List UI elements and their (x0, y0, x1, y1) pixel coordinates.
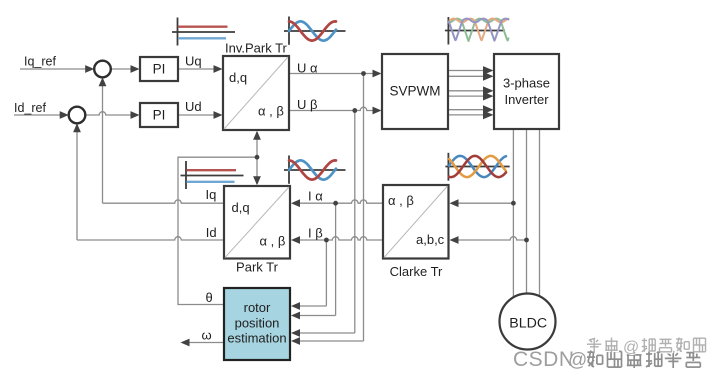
motor BLDC M1 (500, 294, 556, 350)
wire Ud PI2 to Inv.Park (178, 114, 217, 116)
wire summer S2 to PI2 (85, 112, 134, 115)
block Inv.Park transform U1 (223, 56, 289, 130)
svg-text:a,b,c: a,b,c (416, 232, 445, 247)
wire I-alpha Clarke to Park (296, 200, 383, 203)
svg-text:d,q: d,q (229, 70, 247, 85)
svg-text:BLDC: BLDC (509, 316, 547, 332)
wire inverter phase A (512, 130, 514, 299)
svg-text:Id_ref: Id_ref (14, 101, 46, 115)
block SVPWM U2 (382, 54, 448, 129)
junction dot phase A (511, 201, 516, 206)
block Clarke transform U5 (383, 185, 449, 259)
svg-text:PI: PI (153, 62, 166, 77)
svg-text:Inverter: Inverter (504, 92, 549, 107)
svg-text:Uq: Uq (185, 54, 202, 69)
svg-text:d,q: d,q (232, 200, 250, 215)
svg-text:U β: U β (297, 97, 317, 112)
block Park transform U4 (224, 186, 290, 259)
svg-text:SVPWM: SVPWM (389, 84, 440, 99)
wire PWM gate signal 5 (448, 109, 484, 111)
scope icon phase currents (445, 153, 509, 181)
junction dot U-alpha (361, 71, 366, 76)
wire PWM gate signal 3 (448, 90, 484, 92)
svg-text:estimation: estimation (227, 331, 286, 346)
wire PWM gate signal 4 (448, 95, 484, 97)
scope icon dq voltages (top-left) (172, 18, 235, 46)
watermark CSDN (513, 348, 702, 372)
svg-text:α , β: α , β (260, 234, 286, 249)
svg-text:ω: ω (202, 328, 212, 343)
watermark zhihu (587, 338, 707, 358)
junction dot I-alpha (333, 201, 338, 206)
wire Id_ref input (14, 114, 63, 116)
svg-text:Id: Id (206, 225, 217, 240)
PI controller PI1 (140, 57, 178, 81)
svg-text:CSDN: CSDN (513, 348, 575, 371)
wire U-alpha feedback to estimator (363, 74, 365, 342)
wire omega output (188, 342, 224, 344)
PI controller PI2 (140, 103, 178, 127)
svg-text:Inv.Park Tr: Inv.Park Tr (225, 41, 288, 56)
svg-text:Iq: Iq (206, 187, 217, 202)
wire phase A tap to Clarke (454, 202, 513, 204)
scope icon alpha-beta voltages (top) (284, 17, 346, 45)
summing junction S1 (94, 61, 111, 78)
block rotor position estimation U6 (224, 288, 290, 360)
wire I-beta Clarke to Park (296, 237, 383, 240)
wire theta estimator to transforms (178, 157, 257, 304)
svg-text:I β: I β (308, 225, 323, 240)
svg-text:θ: θ (206, 290, 213, 305)
wire U-beta feedback to estimator (354, 111, 356, 334)
wire phase B tap to Clarke (454, 237, 527, 240)
svg-text:Clarke Tr: Clarke Tr (390, 264, 443, 279)
svg-text:Ud: Ud (185, 99, 202, 114)
block 3-phase inverter U3 (494, 54, 559, 129)
wire Iq feedback Park to S1 (103, 200, 225, 203)
wire I-beta feedback to estimator (325, 240, 327, 306)
svg-text:PI: PI (153, 108, 166, 123)
wire summer S1 to PI1 (111, 68, 134, 70)
wire PWM gate signal 6 (448, 114, 484, 116)
wire inverter phase C (539, 130, 541, 299)
svg-text:3-phase: 3-phase (503, 76, 550, 91)
svg-text:U α: U α (297, 60, 318, 75)
wire Iq_ref input (20, 68, 88, 70)
wire inverter phase B (526, 130, 528, 295)
junction dot U-beta (352, 108, 357, 113)
wire U-alpha Inv.Park to SVPWM (289, 73, 376, 75)
wire PWM gate signal 2 (448, 75, 484, 77)
svg-text:α , β: α , β (388, 193, 414, 208)
svg-text:I α: I α (308, 188, 323, 203)
scope icon dq currents (middle) (181, 161, 244, 189)
wire Uq PI1 to Inv.Park (178, 68, 217, 70)
junction dot theta (255, 155, 260, 160)
scope icon SVPWM waveforms (445, 17, 509, 45)
junction dot I-beta (324, 238, 329, 243)
scope icon alpha-beta currents (284, 156, 346, 184)
svg-text:Iq_ref: Iq_ref (24, 55, 56, 69)
svg-text:@: @ (623, 339, 639, 356)
wire PWM gate signal 1 (448, 70, 484, 72)
svg-text:position: position (235, 316, 280, 331)
svg-text:@: @ (568, 350, 587, 371)
svg-text:α , β: α , β (258, 104, 284, 119)
junction dot phase B (524, 238, 529, 243)
summing junction S2 (69, 107, 86, 124)
svg-text:rotor: rotor (244, 300, 271, 315)
wire I-alpha feedback to estimator (335, 203, 337, 315)
wire Id feedback Park to S2 (77, 237, 224, 240)
svg-text:Park Tr: Park Tr (236, 260, 279, 275)
wire U-beta Inv.Park to SVPWM (289, 107, 376, 110)
